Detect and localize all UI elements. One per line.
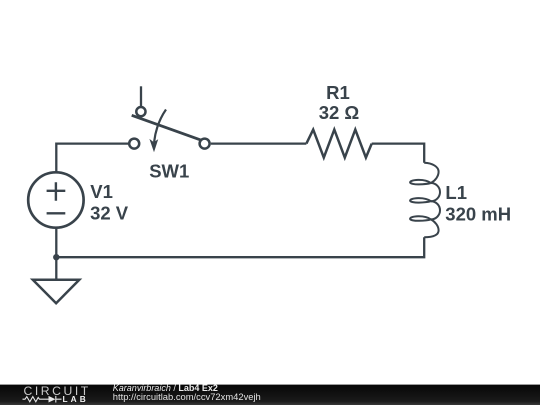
svg-text:http://circuitlab.com/ccv72xm4: http://circuitlab.com/ccv72xm42vejh [113,391,261,402]
wire from V1 positive terminal up-left corner to SW1 left terminal [56,144,129,173]
inductor L1 loop 3 [410,216,431,221]
wire from resistor R1 to top-right corner down to inductor L1 [372,144,425,163]
junction node dot [53,254,59,260]
svg-text:32 Ω: 32 Ω [319,102,360,123]
switch SW1 blade (slanted bar) [132,115,203,141]
switch SW1 left terminal circle [129,139,139,149]
switch SW1 actuation arrow (curved) [154,110,166,143]
svg-text:L1: L1 [445,182,467,203]
inductor L1 loop 2 [410,198,431,203]
inductor L1 hump 2-3 [431,201,440,219]
resistor R1 zigzag [306,130,371,158]
svg-text:32 V: 32 V [90,203,129,224]
inductor L1 bottom hump [424,219,438,237]
switch SW1 top terminal circle [136,107,145,116]
switch SW1 arrowhead [149,139,158,152]
wire from V1 negative terminal to junction [55,228,57,258]
voltage source V1 circle [28,172,83,227]
logo diode [49,396,56,403]
ground symbol triangle [33,280,80,303]
logo resistor zigzag [23,397,49,402]
svg-text:LAB: LAB [63,394,89,404]
switch SW1 right terminal circle [200,139,210,149]
V1 minus sign [47,212,66,214]
svg-text:R1: R1 [326,82,350,103]
V1 plus sign [47,182,66,201]
inductor L1 loop 1 [410,180,431,185]
wire from junction to ground [55,257,57,280]
svg-text:320 mH: 320 mH [445,203,511,224]
wire from inductor L1 bottom to ground junction [56,237,424,257]
inductor L1 hump 1-2 [431,183,440,201]
svg-text:V1: V1 [90,181,113,202]
svg-text:SW1: SW1 [149,160,189,181]
switch SW1 top terminal stub [140,86,142,108]
inductor L1 top hump [424,163,438,183]
wire from SW1 right terminal to resistor R1 [211,142,307,144]
